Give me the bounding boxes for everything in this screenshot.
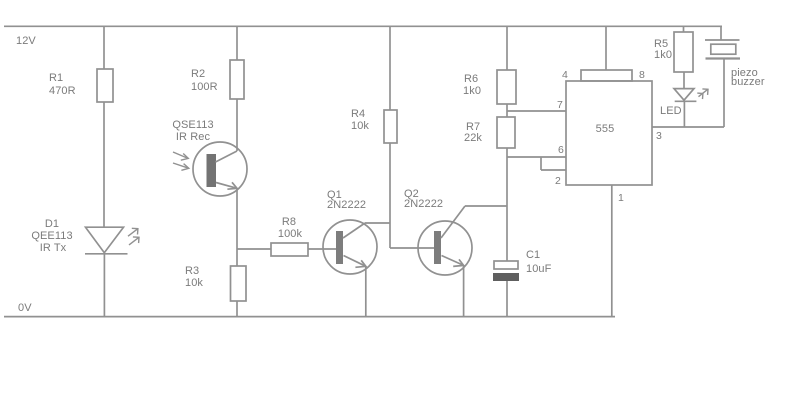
svg-text:8: 8 (639, 69, 645, 81)
svg-text:12V: 12V (16, 35, 36, 47)
svg-text:IR Tx: IR Tx (40, 242, 67, 254)
svg-text:R3: R3 (185, 265, 199, 277)
svg-text:100R: 100R (191, 81, 218, 93)
svg-text:R2: R2 (191, 68, 205, 80)
svg-text:QSE113: QSE113 (172, 119, 213, 131)
svg-text:LED: LED (660, 105, 682, 117)
svg-text:10k: 10k (351, 120, 369, 132)
svg-text:R8: R8 (282, 216, 296, 228)
svg-text:buzzer: buzzer (731, 76, 765, 88)
svg-text:QEE113: QEE113 (31, 230, 72, 242)
svg-text:1k0: 1k0 (654, 49, 672, 61)
svg-text:10uF: 10uF (526, 263, 552, 275)
svg-text:0V: 0V (18, 302, 32, 314)
svg-text:22k: 22k (464, 132, 482, 144)
svg-text:470R: 470R (49, 85, 76, 97)
svg-text:R1: R1 (49, 72, 63, 84)
svg-text:R4: R4 (351, 108, 365, 120)
svg-text:R6: R6 (464, 73, 478, 85)
svg-text:IR Rec: IR Rec (176, 131, 211, 143)
svg-text:2N2222: 2N2222 (404, 198, 443, 210)
svg-text:6: 6 (558, 144, 564, 156)
svg-text:1k0: 1k0 (463, 85, 481, 97)
svg-text:555: 555 (596, 123, 615, 135)
svg-text:4: 4 (562, 69, 568, 81)
svg-text:10k: 10k (185, 277, 203, 289)
svg-text:C1: C1 (526, 249, 540, 261)
svg-text:1: 1 (618, 192, 624, 204)
svg-text:3: 3 (656, 130, 662, 142)
svg-text:2N2222: 2N2222 (327, 199, 366, 211)
svg-text:2: 2 (555, 175, 561, 187)
svg-text:100k: 100k (278, 228, 303, 240)
svg-text:7: 7 (557, 99, 563, 111)
svg-text:D1: D1 (45, 218, 59, 230)
